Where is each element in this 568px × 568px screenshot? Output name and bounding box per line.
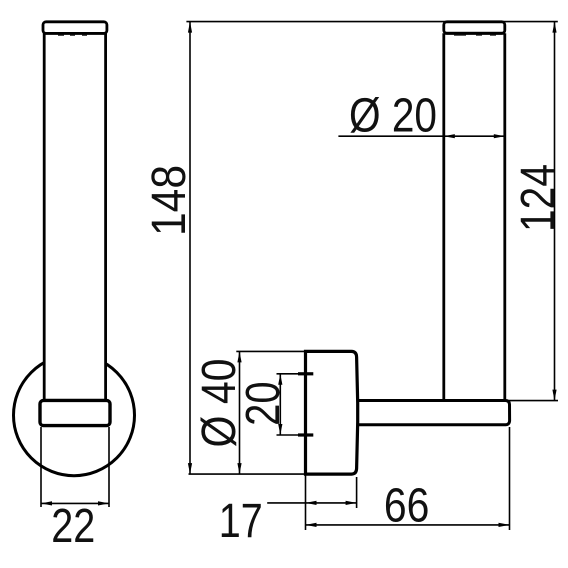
rod body (front view) bbox=[444, 33, 505, 400]
extension line Ø40 top bbox=[236, 350, 305, 352]
top extension line bbox=[186, 21, 557, 23]
dimension line 148 bbox=[188, 22, 192, 475]
svg-text:66: 66 bbox=[384, 478, 430, 532]
wall plate (front view) bbox=[306, 351, 358, 474]
dimension line Ø40 bbox=[237, 351, 241, 474]
rod body (side view) bbox=[44, 30, 105, 401]
wall rose circle (side view) bbox=[14, 355, 135, 476]
dimension line Ø20 with leader bbox=[338, 134, 504, 138]
mounting hole ticks on plate edge bbox=[298, 374, 313, 435]
dimension line 124 bbox=[552, 22, 556, 401]
dimension line 17 with leader bbox=[267, 501, 356, 505]
extension line 66 left (from plate) bbox=[305, 475, 307, 530]
rod cap (side view) bbox=[43, 22, 107, 35]
svg-text:Ø 20: Ø 20 bbox=[349, 89, 437, 143]
dimension line 20 bbox=[278, 374, 282, 435]
bottom extension line (148 / plate bottom level) bbox=[189, 473, 307, 475]
extension lines for 20 (hole spacing) bbox=[277, 374, 299, 435]
extension lines for 22 bbox=[41, 427, 109, 507]
svg-text:20: 20 bbox=[236, 381, 290, 426]
svg-text:17: 17 bbox=[219, 494, 263, 548]
collar (side view, arm cross-section) bbox=[40, 400, 110, 425]
extension line 66 right (from arm) bbox=[509, 427, 511, 530]
dimension line 66 bbox=[306, 523, 510, 527]
extension line at arm top (for 124) bbox=[507, 400, 559, 402]
extension line 17 right bbox=[356, 477, 358, 508]
svg-text:22: 22 bbox=[51, 499, 95, 553]
svg-text:124: 124 bbox=[511, 164, 565, 232]
arm (front view) bbox=[357, 401, 510, 425]
rod cap (front view) bbox=[444, 22, 505, 35]
dimension line 22 bbox=[41, 501, 109, 505]
svg-text:148: 148 bbox=[142, 165, 196, 236]
